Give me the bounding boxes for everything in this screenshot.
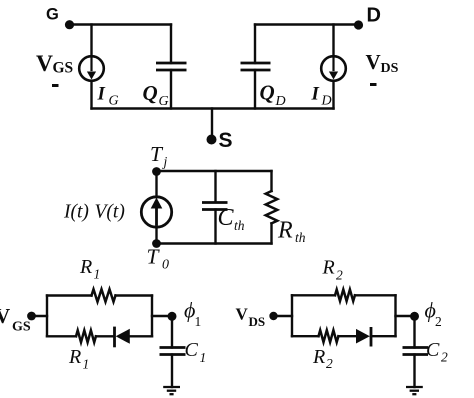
label VDS (lower network input) [236, 305, 266, 330]
current source I(t)V(t) (thermal) [141, 197, 171, 227]
node G terminal dot [65, 20, 74, 29]
label T0 [147, 245, 170, 273]
resistor R2 (top) [335, 290, 355, 302]
capacitor Cth [202, 203, 228, 210]
svg-text:D: D [275, 94, 286, 109]
diode D1 (points left) [115, 327, 153, 348]
wire network2 top-right segment [355, 294, 396, 296]
label ID [311, 83, 332, 108]
svg-text:V: V [0, 304, 10, 328]
svg-text:th: th [234, 218, 245, 233]
svg-text:2: 2 [435, 314, 442, 329]
svg-text:2: 2 [326, 356, 333, 371]
wire network1 left vertical [46, 296, 48, 337]
svg-text:T: T [147, 245, 161, 269]
wire phi1 to C1 [171, 316, 173, 347]
wire input to network 2 [274, 315, 293, 317]
label VGS (lower network input) [0, 304, 31, 335]
label R1 (top) [79, 256, 100, 282]
label minus (VDS) [370, 83, 377, 86]
wire network1 top-right segment [116, 294, 153, 296]
svg-text:V: V [366, 50, 381, 74]
svg-text:2: 2 [441, 350, 448, 365]
wire network2 output [396, 315, 415, 317]
node S dot [207, 135, 217, 145]
resistor R2 (bottom) [319, 330, 339, 342]
ground (network 2) [406, 387, 423, 394]
wire G top (G dot to QG branch) [70, 23, 172, 25]
capacitor C1 [160, 348, 186, 355]
wire network1 bottom-left segment [47, 335, 76, 337]
svg-text:C: C [185, 339, 199, 361]
svg-text:1: 1 [195, 314, 202, 329]
wire network2 top-left segment [292, 294, 335, 296]
wire ID branch lower [332, 81, 334, 109]
label R2 (top) [322, 257, 344, 283]
wire thermal bottom rail [157, 242, 272, 244]
wire resistor to diode D1 [96, 335, 114, 337]
wire bottom bus (source rail) [92, 107, 334, 109]
label minus (VGS) [52, 84, 59, 87]
capacitor QG [156, 63, 187, 70]
wire Cth branch lower [214, 210, 216, 244]
svg-text:R: R [68, 346, 81, 368]
svg-text:Q: Q [260, 81, 275, 105]
wire network1 output [152, 315, 172, 317]
label Cth [218, 205, 245, 233]
svg-text:V(t): V(t) [95, 202, 125, 223]
svg-text:G: G [109, 94, 119, 109]
svg-text:R: R [79, 256, 92, 278]
svg-text:C: C [218, 205, 235, 231]
capacitor C2 [403, 348, 429, 355]
svg-text:GS: GS [12, 320, 31, 335]
svg-text:R: R [312, 346, 325, 368]
svg-text:V: V [36, 51, 53, 77]
resistor Rth [266, 191, 278, 223]
svg-text:1: 1 [83, 357, 90, 372]
node Tj dot [152, 167, 161, 176]
diode D2 (points right) [356, 327, 396, 347]
node T0 dot [152, 239, 161, 248]
wire D top (QD branch to D dot) [255, 23, 359, 25]
label IG [97, 83, 119, 108]
wire network1 right vertical [151, 296, 153, 337]
svg-text:G: G [46, 6, 59, 24]
svg-text:1: 1 [94, 267, 101, 282]
wire thermal source upper stub [155, 171, 157, 197]
wire Cth branch upper [214, 171, 216, 202]
svg-text:R: R [277, 218, 293, 244]
label VDS [366, 50, 399, 76]
svg-text:T: T [150, 142, 164, 166]
current source IG (VGS controlled) [79, 56, 104, 81]
wire IG branch upper [90, 25, 92, 57]
svg-text:2: 2 [336, 268, 343, 283]
svg-text:th: th [295, 230, 306, 245]
node phi2 dot [410, 312, 419, 321]
wire QG branch lower [170, 70, 172, 109]
wire QG branch upper [170, 25, 172, 64]
wire Rth branch lower [270, 223, 272, 243]
node D terminal dot [354, 20, 363, 29]
label C1 [185, 339, 207, 365]
svg-text:0: 0 [162, 258, 169, 273]
svg-text:S: S [219, 129, 233, 152]
svg-text:GS: GS [53, 60, 74, 77]
resistor R1 (bottom) [76, 330, 96, 342]
svg-text:I: I [97, 83, 106, 104]
svg-text:Q: Q [143, 81, 158, 105]
wire network1 top-left segment [47, 294, 92, 296]
svg-text:V: V [236, 305, 249, 324]
label QG [143, 81, 169, 109]
wire input to network 1 [32, 315, 48, 317]
svg-text:I(t): I(t) [63, 202, 89, 223]
wire thermal top rail [157, 170, 272, 172]
label phi2 [425, 298, 442, 330]
svg-text:j: j [162, 154, 168, 169]
wire Rth branch upper [270, 171, 272, 191]
wire ID branch upper [332, 25, 334, 57]
label R1 (bottom) [68, 346, 89, 372]
svg-text:DS: DS [381, 61, 399, 76]
label C2 [426, 339, 448, 365]
svg-text:1: 1 [200, 350, 207, 365]
wire C2 to ground [413, 355, 415, 388]
svg-text:I: I [311, 83, 320, 104]
wire QD branch upper [254, 25, 256, 64]
svg-text:G: G [159, 94, 169, 109]
wire S stub [211, 109, 213, 136]
svg-text:D: D [367, 5, 381, 27]
wire phi2 to C2 [413, 316, 415, 347]
node VGS input dot [27, 312, 36, 321]
wire IG branch lower [90, 81, 92, 109]
resistor R1 (top) [92, 289, 116, 302]
wire network2 left vertical [291, 295, 293, 336]
label VGS [36, 51, 73, 77]
label R2 (bottom) [312, 346, 333, 371]
wire network2 bottom-left segment [292, 335, 319, 337]
current source ID (VDS controlled) [321, 56, 346, 81]
svg-text:C: C [426, 339, 440, 361]
label QD [260, 81, 286, 109]
wire network2 right vertical [394, 295, 396, 336]
wire C1 to ground [171, 355, 173, 388]
label Tj [150, 142, 168, 169]
node phi1 dot [168, 312, 177, 321]
label phi1 [184, 298, 201, 330]
ground (network 1) [163, 387, 180, 394]
capacitor QD [241, 63, 271, 70]
wire resistor to diode D2 [339, 335, 357, 337]
svg-text:DS: DS [249, 314, 266, 329]
svg-text:D: D [321, 94, 332, 109]
wire QD branch lower [254, 70, 256, 109]
wire thermal source lower stub [155, 228, 157, 244]
node VDS input dot [269, 312, 277, 320]
svg-text:R: R [322, 257, 335, 279]
label Rth [277, 218, 306, 246]
